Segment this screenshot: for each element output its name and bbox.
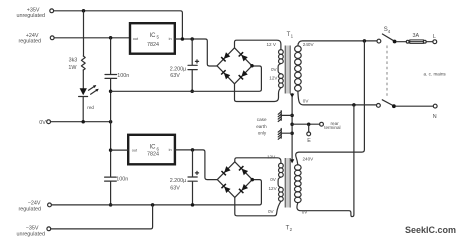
svg-text:red: red [87,105,94,110]
svg-text:12V: 12V [269,75,278,80]
svg-text:in: in [169,36,172,41]
svg-text:0V: 0V [302,209,309,214]
svg-text:2.200µ: 2.200µ [170,66,187,72]
svg-text:a. c. mains: a. c. mains [424,72,447,77]
svg-text:case: case [257,117,267,122]
svg-text:N: N [433,114,437,120]
svg-text:L: L [433,34,436,40]
svg-text:3k3: 3k3 [69,58,78,64]
svg-text:0V: 0V [271,67,278,72]
svg-text:2.200µ: 2.200µ [170,178,187,184]
svg-text:240V: 240V [303,42,315,47]
svg-text:7824: 7824 [147,42,159,48]
svg-text:only: only [258,130,267,135]
svg-text:100n: 100n [116,177,128,183]
svg-text:terminal: terminal [324,125,340,130]
svg-text:SeekIC.com: SeekIC.com [405,225,456,235]
svg-text:IC: IC [150,33,157,39]
svg-text:0V: 0V [303,98,310,103]
svg-text:12V: 12V [269,186,278,191]
svg-text:out: out [133,36,139,41]
svg-text:0V: 0V [270,177,277,182]
svg-text:regulated: regulated [19,206,41,212]
svg-text:unregulated: unregulated [17,232,45,238]
svg-text:0V: 0V [268,209,275,214]
svg-text:7824: 7824 [147,151,159,157]
svg-text:63V: 63V [170,185,180,191]
svg-text:1W: 1W [68,65,77,71]
svg-text:unregulated: unregulated [17,13,45,19]
svg-text:IC: IC [150,145,157,151]
svg-text:100n: 100n [117,73,129,79]
svg-text:240V: 240V [303,157,315,162]
svg-text:12 V: 12 V [267,42,277,47]
svg-text:12V: 12V [267,155,276,160]
svg-text:in: in [169,147,172,152]
svg-text:0V: 0V [39,120,46,126]
svg-text:out: out [132,147,138,152]
svg-text:earth: earth [256,124,267,129]
svg-text:3A: 3A [413,33,420,39]
svg-text:regulated: regulated [19,38,41,44]
svg-text:E: E [307,138,311,144]
svg-text:63V: 63V [170,73,180,79]
svg-text:−35V: −35V [26,225,39,231]
